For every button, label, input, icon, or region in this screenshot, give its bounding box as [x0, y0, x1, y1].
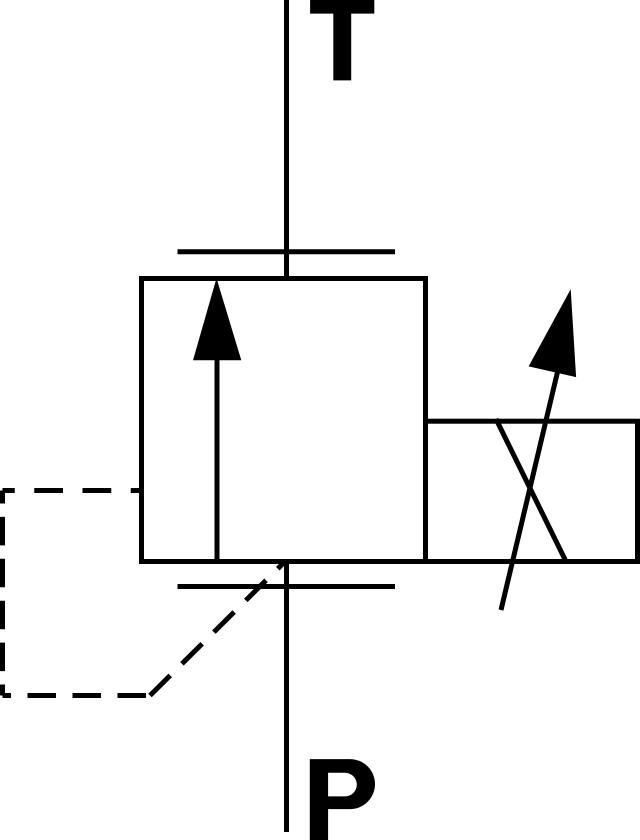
flow arrow head	[193, 278, 241, 360]
pilot line dashed segment left horizontal	[3, 488, 140, 493]
pilot line dashed segment bottom horizontal	[3, 693, 151, 698]
port marker bottom line	[178, 584, 396, 589]
spring adjustment box	[426, 421, 638, 561]
port label T	[310, 0, 374, 80]
adjustment arrow shaft	[501, 372, 558, 610]
pilot line dashed segment left vertical	[0, 491, 5, 696]
port label P	[310, 759, 375, 840]
flow arrow shaft	[215, 358, 220, 562]
pilot line dashed segment diagonal to P junction	[150, 561, 286, 696]
wire T port vertical line	[284, 0, 289, 281]
spring box diagonal line	[496, 419, 566, 561]
valve body box	[142, 279, 426, 562]
port marker top line	[178, 249, 396, 254]
adjustment arrow head	[529, 289, 577, 377]
wire P port vertical line	[284, 559, 289, 832]
